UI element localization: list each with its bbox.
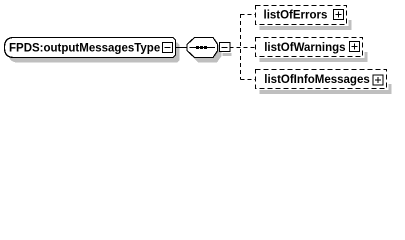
sequence collapse box (minus) [220, 43, 231, 52]
sequence compositor shadow [191, 43, 222, 63]
element listOfInfoMessages shadow [260, 90, 392, 94]
svg-text:listOfWarnings: listOfWarnings [264, 42, 345, 54]
element listOfErrors shadow [260, 26, 352, 30]
sequence dots [196, 46, 199, 49]
element listOfInfoMessages box (optional, dashed) [256, 70, 387, 89]
sequence collapse box (minus) shadow [223, 53, 232, 56]
wire: sequence to branch (dashed, middle row) [230, 47, 256, 49]
wire: vertical branch line (dashed) [240, 14, 242, 80]
wire: branch to listOfInfoMessages (dashed) [241, 79, 256, 81]
element listOfErrors box (optional, dashed) [256, 6, 347, 25]
expand box (plus) of listOfWarnings [350, 42, 360, 52]
svg-text:FPDS:outputMessagesType: FPDS:outputMessagesType [9, 42, 160, 54]
complexType FPDS:outputMessagesType shadow [9, 43, 180, 63]
expand box (plus) of listOfInfoMessages [373, 75, 383, 85]
sequence compositor octagon [187, 38, 218, 58]
svg-text:listOfInfoMessages: listOfInfoMessages [264, 74, 369, 86]
expand box (plus) of listOfErrors [334, 10, 344, 20]
svg-text:listOfErrors: listOfErrors [264, 10, 328, 22]
sequence line [190, 47, 216, 49]
collapse box (minus) of FPDS:outputMessagesType [163, 43, 173, 53]
element listOfWarnings box (optional, dashed) [256, 38, 363, 57]
element listOfWarnings shadow [260, 58, 368, 62]
complexType FPDS:outputMessagesType box [5, 38, 176, 58]
wire: complexType to sequence (solid) [176, 47, 188, 49]
wire: branch to listOfErrors (dashed) [241, 14, 256, 16]
